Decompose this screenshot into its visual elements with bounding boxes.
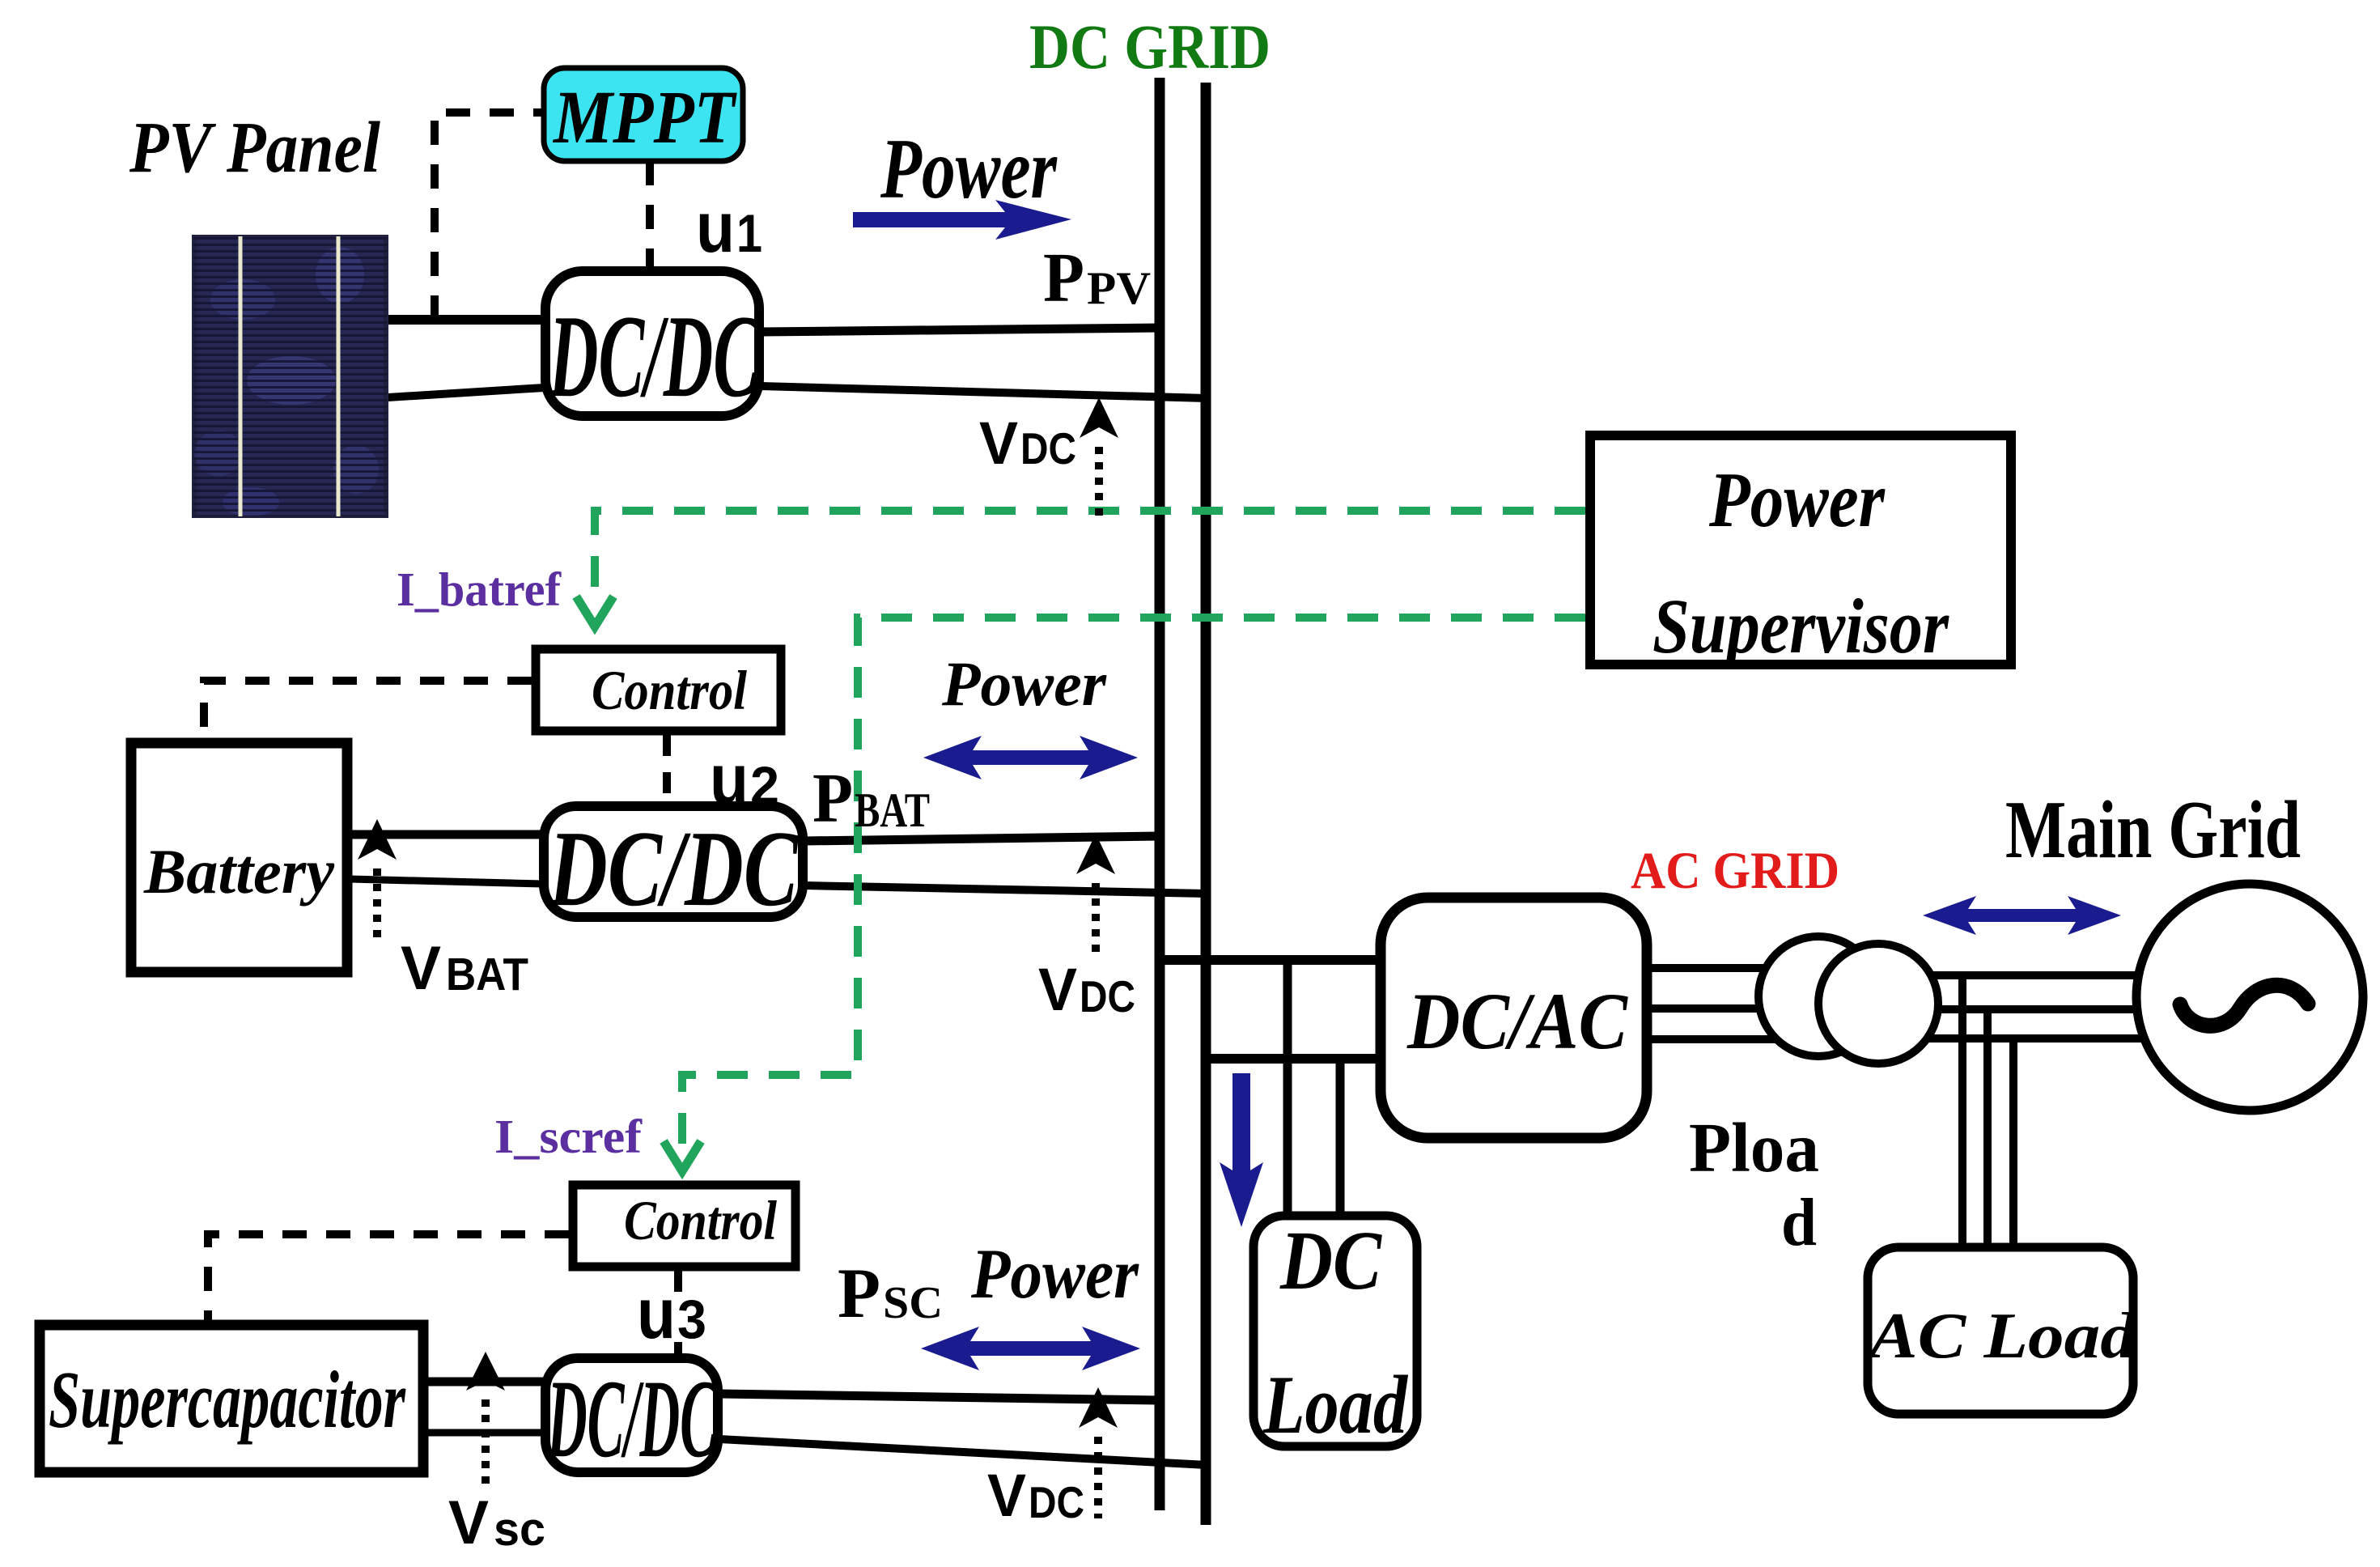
- svg-text:V: V: [987, 1462, 1026, 1529]
- Battery box: [131, 743, 347, 972]
- VBAT sense arrow at Battery: [358, 819, 397, 860]
- wire PV+ to DC/DC1: [387, 315, 544, 325]
- wire transformer to Main Grid phase A: [1886, 971, 2185, 979]
- svg-text:Supercapacitor: Supercapacitor: [49, 1354, 406, 1445]
- dashed control line Control2 to DC/DC3 (u3): [674, 1271, 682, 1305]
- wire DC bus to DC/AC (bottom): [1204, 1054, 1381, 1064]
- svg-text:V: V: [979, 410, 1018, 477]
- blue double power arrow Battery grid: [923, 736, 1138, 779]
- DC bus left rail: [1155, 78, 1165, 1510]
- VDC sense arrow middle (Battery): [1076, 834, 1115, 874]
- wire DC/DC2 to DC bus (bottom): [804, 885, 1207, 894]
- svg-text:DC/AC: DC/AC: [1406, 976, 1628, 1066]
- green arrowhead I_batref: [576, 597, 613, 626]
- dashed sense line Battery to Control 1: [204, 681, 532, 738]
- converter DC/DC1 box: [545, 271, 759, 416]
- svg-text:u: u: [696, 187, 735, 267]
- wire transformer to Main Grid phase B: [1886, 1005, 2185, 1013]
- svg-text:Battery: Battery: [143, 836, 334, 907]
- svg-text:Power: Power: [941, 648, 1107, 719]
- wire DC bus to DC/AC (top): [1157, 955, 1381, 965]
- PV panel photo: [192, 235, 388, 518]
- dashed control line MPPT to DC/DC1 (u1): [646, 161, 654, 270]
- svg-text:AC Load: AC Load: [1865, 1299, 2137, 1372]
- wire DC/DC3 to DC bus (bottom): [719, 1439, 1207, 1465]
- Main Grid source circle: [2136, 884, 2363, 1110]
- wire drop to AC Load phase A: [1958, 975, 1966, 1248]
- svg-text:DC: DC: [1020, 423, 1076, 473]
- wire DC/DC2 to DC bus (PBAT top): [804, 836, 1160, 841]
- svg-text:DC/DC: DC/DC: [548, 809, 799, 928]
- dashed sense line Supercapacitor to Control 2: [208, 1234, 569, 1320]
- dashed control line Control1 to DC/DC2 (u2): [663, 735, 671, 803]
- svg-text:PV Panel: PV Panel: [129, 108, 380, 188]
- wire Supercapacitor to DC/DC3 (top): [424, 1378, 544, 1387]
- Main Grid sine symbol: [2180, 985, 2308, 1026]
- wire transformer to Main Grid phase C: [1886, 1034, 2185, 1043]
- svg-text:1: 1: [736, 203, 762, 263]
- wire DC/AC to transformer phase C: [1647, 1035, 1821, 1043]
- Supercapacitor box: [40, 1325, 423, 1472]
- transformer winding 2: [1818, 944, 1938, 1064]
- wire DC/DC3 to DC bus (PSC top): [719, 1394, 1160, 1400]
- wire DC/AC to transformer phase A: [1647, 964, 1821, 972]
- wire DC/DC1 to DC bus (bottom): [761, 386, 1207, 398]
- svg-text:Load: Load: [1262, 1359, 1408, 1451]
- converter DC/DC2 box: [544, 806, 803, 917]
- svg-text:3: 3: [677, 1289, 706, 1350]
- Control box 2: [573, 1185, 795, 1267]
- wire Supercapacitor to DC/DC3 (bottom): [424, 1429, 544, 1437]
- svg-text:DC/DC: DC/DC: [548, 291, 760, 422]
- svg-text:2: 2: [750, 755, 779, 815]
- Control box 1: [536, 649, 781, 731]
- blue power flow arrow PV to grid: [853, 200, 1071, 240]
- green arrowhead I_scref: [664, 1141, 701, 1171]
- svg-text:sc: sc: [494, 1503, 545, 1556]
- wire junction vertical to DC Load (left): [1283, 960, 1292, 1216]
- svg-text:BAT: BAT: [446, 949, 528, 1000]
- svg-text:Main Grid: Main Grid: [2005, 784, 2301, 876]
- svg-text:DC: DC: [1279, 1214, 1382, 1307]
- transformer winding 1: [1758, 936, 1878, 1056]
- wire DC/AC to transformer phase B: [1647, 1004, 1821, 1013]
- DC Load box: [1254, 1216, 1417, 1446]
- Power Supervisor box: [1590, 435, 2011, 665]
- AC Load box: [1868, 1247, 2133, 1414]
- svg-text:SC: SC: [883, 1278, 943, 1328]
- svg-text:I_batref: I_batref: [397, 563, 562, 616]
- svg-text:PV: PV: [1087, 263, 1151, 314]
- wire Battery to DC/DC2 (top): [350, 830, 542, 839]
- svg-text:DC: DC: [1080, 971, 1135, 1021]
- svg-text:BAT: BAT: [855, 783, 930, 837]
- VSC sense arrow at Supercapacitor: [466, 1352, 505, 1391]
- blue double power arrow Main Grid: [1923, 896, 2121, 935]
- svg-text:DC/DC: DC/DC: [546, 1357, 718, 1480]
- svg-text:Power: Power: [1708, 457, 1886, 544]
- svg-text:AC GRID: AC GRID: [1631, 842, 1839, 900]
- svg-text:I_scref: I_scref: [494, 1110, 643, 1163]
- VDC sense arrow top (PV): [1080, 397, 1118, 438]
- VDC sense arrow bottom (Supercapacitor): [1079, 1387, 1118, 1428]
- green dashed supervisor line to Control2 (I_scref): [682, 618, 1585, 1145]
- svg-text:u: u: [637, 1273, 676, 1353]
- svg-text:P: P: [1043, 238, 1084, 316]
- svg-text:Supervisor: Supervisor: [1652, 583, 1949, 669]
- converter DC/AC box: [1381, 898, 1647, 1138]
- svg-text:Ploa: Ploa: [1689, 1108, 1819, 1187]
- green dashed supervisor line to Control1 (I_batref): [595, 511, 1585, 601]
- svg-text:DC: DC: [1029, 1477, 1084, 1527]
- wire PV- to DC/DC1: [375, 388, 544, 398]
- wire junction vertical to DC Load (right): [1336, 1059, 1345, 1216]
- wire Battery to DC/DC2 (bottom): [350, 879, 542, 884]
- wire drop to AC Load phase B: [1983, 1009, 1992, 1248]
- svg-text:u: u: [710, 739, 749, 819]
- converter DC/DC3 box: [545, 1358, 718, 1472]
- svg-text:DC GRID: DC GRID: [1029, 11, 1271, 82]
- wire DC/DC1 to DC bus (PPV top): [761, 328, 1160, 332]
- svg-text:Control: Control: [624, 1190, 778, 1251]
- blue double power arrow Supercapacitor grid: [921, 1327, 1140, 1370]
- MPPT box: [544, 68, 743, 161]
- DC bus right rail: [1201, 83, 1211, 1525]
- svg-text:Power: Power: [970, 1235, 1139, 1314]
- svg-text:d: d: [1781, 1185, 1817, 1260]
- svg-text:V: V: [401, 934, 441, 1003]
- svg-text:MPPT: MPPT: [552, 76, 737, 159]
- svg-text:P: P: [812, 758, 853, 837]
- svg-text:P: P: [838, 1255, 880, 1333]
- wire drop to AC Load phase C: [2009, 1038, 2017, 1248]
- svg-text:V: V: [448, 1488, 489, 1557]
- svg-text:Power: Power: [880, 121, 1058, 216]
- svg-text:Control: Control: [592, 660, 748, 721]
- blue power arrow DC Load: [1220, 1073, 1263, 1227]
- dashed sense line PV panel to MPPT: [435, 113, 544, 320]
- svg-text:V: V: [1038, 956, 1077, 1023]
